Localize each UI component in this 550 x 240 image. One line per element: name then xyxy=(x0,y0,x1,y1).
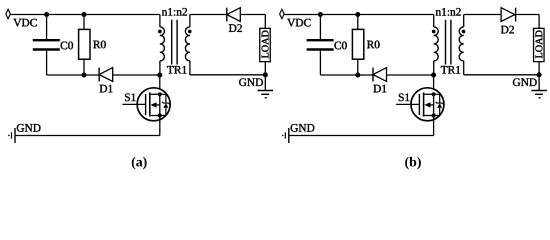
transistor S1 MOSFET (a) xyxy=(122,88,170,121)
wire secondary top rail (b) xyxy=(464,14,539,16)
wire ground rail (b) xyxy=(289,135,434,137)
node junction C0 top (b) xyxy=(318,12,323,17)
wire TR1 primary to MOSFET drain (a) xyxy=(159,75,161,94)
label VDC (a) xyxy=(13,19,36,27)
wire top rail VDC to TR1 primary (a) xyxy=(10,14,160,16)
transformer TR1 secondary polarity dot (a) xyxy=(188,30,192,34)
wire LOAD bottom lead (b) xyxy=(538,62,540,75)
label D1 (b) xyxy=(373,85,386,93)
label R0 (b) xyxy=(367,41,380,49)
wire D2 to LOAD (b) xyxy=(538,15,540,29)
label VDC (b) xyxy=(287,19,310,27)
transformer TR1 primary winding (b) xyxy=(434,15,438,76)
transformer TR1 core (b) xyxy=(446,20,451,65)
label GND secondary (b) xyxy=(513,78,537,86)
label S1 (a) xyxy=(125,94,136,102)
transformer TR1 secondary winding (b) xyxy=(459,15,463,75)
load resistor LOAD (b) xyxy=(534,28,545,61)
wire secondary top rail (a) xyxy=(190,14,265,16)
label R0 (a) xyxy=(93,41,106,49)
transformer TR1 primary polarity dot (a) xyxy=(158,30,162,34)
wire top rail VDC to TR1 primary (b) xyxy=(284,14,434,16)
port VDC (a) xyxy=(6,9,11,18)
resistor R0 (a) xyxy=(79,15,90,76)
load resistor LOAD (a) xyxy=(260,28,271,61)
wire secondary bottom rail (b) xyxy=(464,74,539,76)
label D1 (a) xyxy=(100,85,113,93)
label GND port (b) xyxy=(291,124,315,132)
wire bottom rail C0 to MOSFET drain node (a) xyxy=(47,74,160,76)
diode D2 (a) xyxy=(227,8,241,22)
node junction C0 top (a) xyxy=(44,12,49,17)
caption (b) xyxy=(405,157,421,170)
ground secondary GND (a) xyxy=(258,75,274,98)
label C0 (a) xyxy=(61,42,73,50)
diode D2 (b) xyxy=(501,8,516,22)
wire MOSFET source to ground rail (b) xyxy=(433,116,435,136)
label TR1 (a) xyxy=(167,66,186,74)
label GND port (a) xyxy=(17,124,41,132)
port VDC (b) xyxy=(280,9,285,18)
ground secondary GND (b) xyxy=(531,75,547,98)
label GND secondary (a) xyxy=(239,78,263,86)
wire secondary bottom rail (a) xyxy=(190,74,265,76)
wire bottom rail C0 to MOSFET drain node (b) xyxy=(320,74,433,76)
label n1:n2 (b) xyxy=(436,8,461,16)
node junction R0 top (a) xyxy=(81,12,86,17)
ground port GND (b) xyxy=(282,128,289,143)
node junction R0 top (b) xyxy=(355,12,360,17)
label LOAD (a) xyxy=(262,31,269,59)
label D2 (a) xyxy=(229,24,242,32)
wire MOSFET source to ground rail (a) xyxy=(159,116,161,136)
node junction secondary ground (a) xyxy=(263,72,268,77)
transformer TR1 core (a) xyxy=(172,20,177,65)
node junction R0 bottom (a) xyxy=(81,72,86,77)
label LOAD (b) xyxy=(535,31,542,59)
transformer TR1 secondary winding (a) xyxy=(185,15,189,75)
wire D2 to LOAD (a) xyxy=(264,15,266,29)
diode D1 (b) xyxy=(373,68,387,82)
wire TR1 primary to MOSFET drain (b) xyxy=(433,75,435,94)
label D2 (b) xyxy=(501,26,514,34)
wire ground rail (a) xyxy=(15,135,160,137)
label n1:n2 (a) xyxy=(162,8,187,16)
ground port GND (a) xyxy=(8,128,15,143)
diode D1 (a) xyxy=(99,68,113,82)
transformer TR1 primary polarity dot (b) xyxy=(432,30,436,34)
capacitor C0 (b) xyxy=(307,15,334,76)
capacitor C0 (a) xyxy=(33,15,60,76)
label TR1 (b) xyxy=(441,66,460,74)
resistor R0 (b) xyxy=(352,15,363,76)
caption (a) xyxy=(132,157,147,170)
wire LOAD bottom lead (a) xyxy=(264,62,266,75)
node junction R0 bottom (b) xyxy=(355,72,360,77)
node junction D1 TR1 drain (b) xyxy=(431,72,436,77)
label S1 (b) xyxy=(399,94,410,102)
transistor S1 MOSFET (b) xyxy=(396,88,444,121)
node junction D1 TR1 drain (a) xyxy=(157,72,162,77)
node junction secondary ground (b) xyxy=(537,72,542,77)
transformer TR1 primary winding (a) xyxy=(160,15,164,76)
transformer TR1 secondary polarity dot (b) xyxy=(462,30,466,34)
label C0 (b) xyxy=(334,42,346,50)
